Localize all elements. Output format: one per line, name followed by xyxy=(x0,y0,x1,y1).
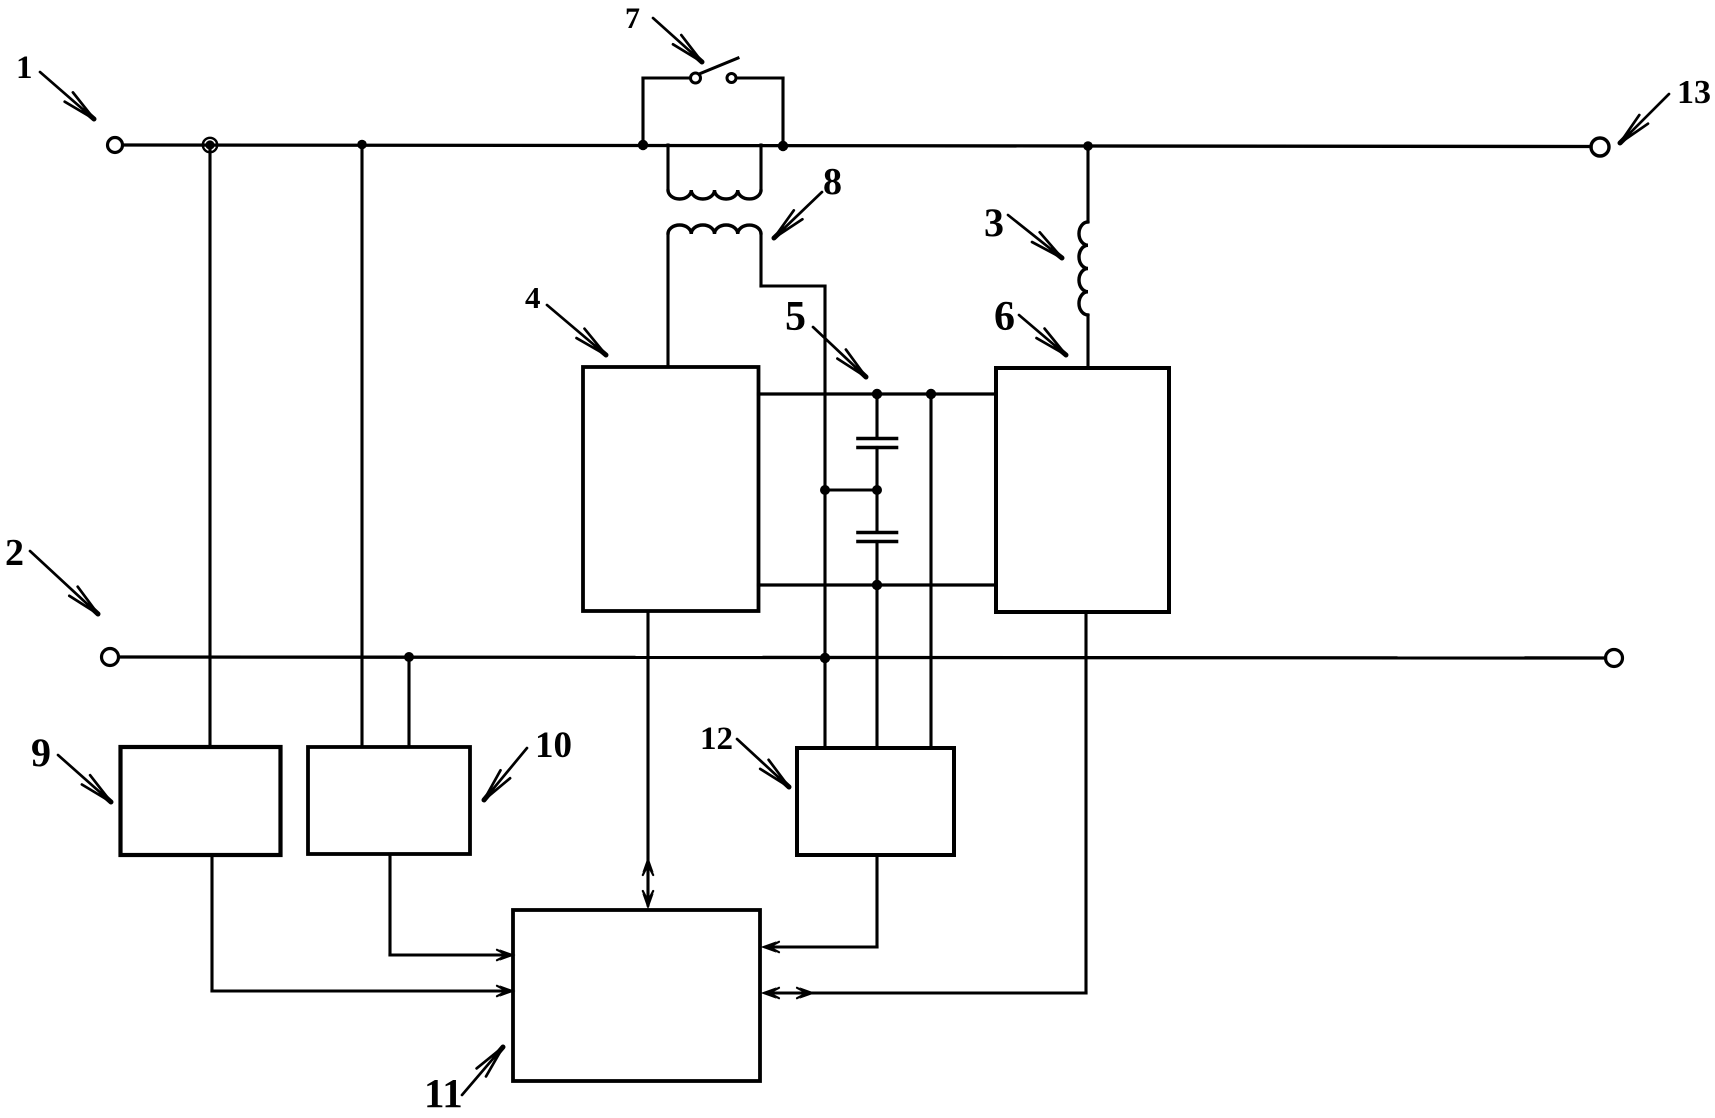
wire: block 4 bottom to block 11 top (bidirectional) xyxy=(646,611,649,905)
svg-text:2: 2 xyxy=(5,532,24,574)
wire: inductor 3 to block 6 top xyxy=(1086,315,1089,368)
leader arrow for label 6 xyxy=(1019,315,1066,355)
node: DC link top rail / block 12 tap xyxy=(926,389,936,399)
wire: bypass top left segment xyxy=(643,76,691,79)
node: capacitor midpoint xyxy=(872,485,882,495)
leader arrow for label 8 xyxy=(774,192,822,238)
transformer T8 secondary winding xyxy=(668,225,761,234)
leader arrow for label 10 xyxy=(484,748,527,800)
leader arrow for label 11 xyxy=(462,1047,503,1095)
switch S7 left contact xyxy=(691,73,701,83)
wire: midpoint to C5b xyxy=(875,490,878,532)
svg-text:6: 6 xyxy=(994,294,1015,340)
wire: transformer primary right lead xyxy=(759,145,762,190)
wire: DC link top rail (block 4 to block 6) xyxy=(759,392,997,395)
node: DC link top rail / capacitor string xyxy=(872,389,882,399)
svg-text:11: 11 xyxy=(424,1070,463,1113)
arrowhead: block 10 output into block 11 xyxy=(497,950,514,960)
node: top bus / block 10 drop xyxy=(357,140,367,150)
svg-text:10: 10 xyxy=(535,725,572,766)
wire: top bus to inductor 3 xyxy=(1086,146,1089,222)
switch S7 right contact xyxy=(727,74,736,83)
svg-text:8: 8 xyxy=(823,161,842,203)
wire: secondary lead down to bottom bus (node at bus) xyxy=(823,286,826,658)
svg-text:9: 9 xyxy=(31,730,51,775)
leader arrow for label 9 xyxy=(58,755,111,802)
svg-text:4: 4 xyxy=(525,280,541,315)
wire: link from secondary lead to capacitor midpoint xyxy=(825,488,877,491)
wire: DC link top rail tap down to block 12 (crosses rails and bus) xyxy=(929,394,932,748)
block 6 (converter) xyxy=(996,368,1169,612)
leader arrow for label 1 xyxy=(40,72,94,119)
leader arrow for label 2 xyxy=(30,551,98,614)
node: top bus / block 9 drop (ringed junction) xyxy=(205,140,214,149)
wire: transformer primary left lead xyxy=(666,145,669,190)
wire: C5a to midpoint xyxy=(875,448,878,491)
wire: block 6 to block 11 right side (bidirectional) xyxy=(766,991,1086,994)
block 12 (sensor) xyxy=(797,748,954,855)
terminal: phase input node 1 (left, top bus) xyxy=(108,138,123,153)
terminal: output node 13 (right, top bus) xyxy=(1591,138,1609,156)
arrowhead: block 6 line into block 11 (left head) xyxy=(762,988,779,998)
wire: secondary left lead down to block 4 xyxy=(666,234,669,367)
wire: block 9 bottom down xyxy=(210,855,213,991)
wire: bypass right riser xyxy=(781,78,784,146)
capacitor C5b bottom plate xyxy=(858,540,897,544)
svg-text:13: 13 xyxy=(1677,74,1711,111)
svg-text:7: 7 xyxy=(625,2,640,35)
leader arrow for label 3 xyxy=(1008,215,1062,258)
capacitor C5a bottom plate xyxy=(858,446,897,450)
svg-text:5: 5 xyxy=(785,294,806,340)
terminal: output (right, bottom bus) xyxy=(1606,650,1623,667)
block 11 (controller) xyxy=(513,910,760,1081)
block 4 (converter) xyxy=(583,367,759,611)
wire: capacitor string down to block 12 (crosses bottom bus) xyxy=(875,585,878,748)
transformer T8 primary winding xyxy=(668,190,761,199)
capacitor C5b top plate xyxy=(858,531,897,535)
arrowhead: block 6 line bidirectional (right head) xyxy=(797,988,814,998)
node ring at top bus junction xyxy=(203,138,217,152)
node: secondary lead / capacitor midpoint link xyxy=(820,485,830,495)
wire: block 12 to block 11 right side xyxy=(766,945,877,948)
wire: block 6 bottom down xyxy=(1084,612,1087,993)
terminal: neutral input node 2 (left, bottom bus) xyxy=(102,649,119,666)
leader arrow for label 13 xyxy=(1620,94,1669,143)
wire: bottom bus (line 2) xyxy=(119,657,1606,658)
node: top bus / bypass right xyxy=(778,141,788,151)
leader arrow for label 4 xyxy=(547,305,606,355)
arrowhead: block 4/11 link down head xyxy=(643,891,653,908)
node: bottom bus / block 10 drop xyxy=(404,652,414,662)
block 10 xyxy=(308,747,470,854)
node: top bus / inductor 3 xyxy=(1083,141,1093,151)
svg-text:3: 3 xyxy=(984,200,1004,245)
switch S7 blade (open) xyxy=(699,58,738,74)
wire: DC link bottom rail (block 4 to block 6) xyxy=(759,583,997,586)
leader arrow for label 5 xyxy=(813,327,866,377)
node: top bus / bypass left xyxy=(638,140,648,150)
wire: bypass left riser xyxy=(641,78,644,145)
arrowhead: block 9 output into block 11 xyxy=(497,986,514,996)
wire: block 12 bottom down xyxy=(875,855,878,947)
leader arrow for label 12 xyxy=(737,739,789,787)
svg-text:1: 1 xyxy=(16,50,33,86)
arrowhead: block 12 output into block 11 xyxy=(762,942,779,952)
wire: drop from bottom bus to block 10 xyxy=(407,657,410,747)
capacitor C5a top plate xyxy=(858,437,897,441)
wire: capacitor C5a top lead xyxy=(875,394,878,438)
node: bottom bus / secondary lead xyxy=(820,653,830,663)
arrowhead: block 4/11 link up head xyxy=(643,858,653,875)
node: DC link bottom rail / capacitor string xyxy=(872,580,882,590)
block 9 xyxy=(121,747,281,855)
wire: drop from top bus to block 9 (crosses bottom bus) xyxy=(208,145,211,747)
wire: block 10 bottom down xyxy=(388,855,391,955)
wire: top bus (line 1) xyxy=(123,145,1591,147)
wire: drop from top bus to block 10 (crosses bottom bus) xyxy=(360,145,363,747)
wire: C5b bottom lead xyxy=(875,542,878,586)
wire: secondary right lead down xyxy=(759,234,762,286)
svg-text:12: 12 xyxy=(700,721,733,757)
wire: block 9 to block 11 left side xyxy=(212,989,509,992)
inductor L3 winding xyxy=(1079,222,1088,315)
leader arrow for label 7 xyxy=(653,18,702,62)
wire: continuation down to block 12 xyxy=(823,658,826,748)
wire: bypass top right segment xyxy=(737,76,784,79)
wire: block 10 to block 11 left side xyxy=(390,953,509,956)
wire: secondary right lead horizontal xyxy=(761,284,825,287)
